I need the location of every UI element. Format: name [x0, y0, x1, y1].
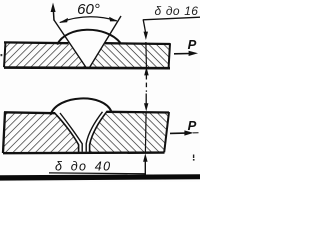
svg-text:P: P — [188, 118, 197, 133]
upper weld right groove face (extended above surface) — [90, 16, 121, 67]
60-degree angle arc with arrowheads — [59, 17, 118, 23]
lower left plate (hatched) — [3, 112, 79, 153]
dimension shelf line under label (top right) — [143, 17, 200, 20]
arrow up to upper plate bottom + shaft — [144, 67, 149, 80]
lower weld left groove face (inner line) — [60, 113, 82, 152]
upper right plate (hatched) — [90, 43, 170, 68]
lower weld left outer boundary — [55, 113, 79, 153]
upper weld cap (reinforcement arc) — [57, 30, 120, 45]
lower weld right groove face (inner line) — [86, 112, 102, 152]
force arrow P (lower) — [170, 130, 199, 135]
arrow up to lower plate bottom + shaft down to bar — [143, 153, 148, 177]
lower weld cap (reinforcement arc) — [51, 98, 112, 114]
stray mark (scan artifact) right margin — [193, 155, 195, 161]
upper left plate (hatched) — [4, 42, 86, 68]
upper plates common bottom edge — [4, 66, 170, 69]
lower weld right outer boundary — [90, 111, 107, 152]
svg-text:60°: 60° — [77, 1, 100, 18]
svg-text:δ до 40: δ до 40 — [55, 160, 111, 174]
dimension shelf line under bottom label — [49, 172, 146, 175]
dashed link between figures — [145, 83, 147, 92]
upper weld left groove face (extended above surface) — [54, 20, 86, 67]
lower right plate (hatched) — [90, 111, 169, 152]
thick black bottom bar — [0, 174, 200, 180]
dimension line: shelf corner down to upper plate top, arrow down — [143, 20, 148, 40]
leader arrow pointing up from left face — [51, 3, 56, 21]
svg-text:δ до 16: δ до 16 — [155, 4, 199, 18]
dimension line through upper plate — [145, 42, 148, 67]
lower plates common bottom edge — [3, 151, 165, 154]
svg-text:P: P — [188, 37, 197, 52]
arrow down to lower plate top + shaft — [144, 94, 148, 112]
force arrow P (upper) — [174, 51, 198, 56]
stray mark (scan artifact) left margin — [1, 54, 3, 56]
dimension line through lower plate — [144, 112, 147, 153]
